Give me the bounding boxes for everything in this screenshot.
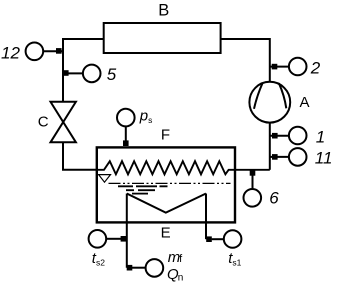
svg-text:1: 1 [316, 127, 325, 146]
evaporator F box [97, 147, 235, 222]
wire compressor down to evaporator outlet corner [269, 122, 271, 169]
node m_f [127, 265, 133, 271]
node t_s1 [206, 236, 212, 242]
separator trough E (V shape) [127, 194, 206, 213]
svg-text:B: B [158, 2, 169, 20]
node 11 [272, 154, 278, 160]
heating coil in evaporator [97, 161, 270, 174]
wire stub to sensor 2 [270, 66, 289, 68]
pipe E left leg [126, 194, 128, 268]
wire stub to sensor 1 [270, 135, 289, 137]
svg-text:11: 11 [315, 148, 333, 167]
sensor circle 5 [83, 65, 101, 83]
svg-text:2: 2 [310, 59, 321, 78]
sensor circle 12 [26, 43, 44, 61]
water surface dashes row 1 [118, 185, 168, 187]
level indicator nabla [99, 175, 111, 183]
wire stub to sensor 6 [252, 172, 254, 188]
compressor blade right [279, 83, 286, 108]
wire stub to sensor t_s1 [212, 238, 224, 240]
wire stub to sensor t_s2 [107, 238, 121, 240]
svg-text:F: F [161, 127, 170, 144]
wire top-right horizontal and down to compressor [221, 39, 270, 82]
compressor A [249, 82, 290, 123]
sensor circle 1 [289, 127, 307, 145]
compressor blade left [254, 83, 263, 109]
water surface dashes row 3 [132, 193, 148, 195]
sensor circle t_s2 [89, 230, 107, 248]
pipe E right leg [205, 194, 207, 240]
pressure sensor stub [125, 127, 127, 146]
sensor circle 2 [289, 58, 307, 76]
svg-text:C: C [38, 114, 49, 131]
svg-text:E: E [161, 225, 171, 242]
sensor circle 6 [244, 189, 262, 207]
water surface dashes row 2 [126, 189, 155, 191]
wire stub to sensor 12 [44, 50, 62, 52]
svg-text:A: A [300, 94, 310, 111]
wire valve to evaporator inlet [63, 142, 97, 170]
liquid level centre line [109, 182, 231, 184]
svg-text:12: 12 [1, 44, 20, 63]
wire top-left horizontal from node to condenser B [63, 39, 104, 102]
wire stub to sensor m_f [132, 267, 145, 269]
node 1 [272, 133, 278, 139]
wire stub to sensor 5 [63, 72, 82, 74]
node 2 [272, 64, 278, 70]
sensor circle p_s [117, 109, 135, 127]
svg-text:6: 6 [269, 188, 279, 207]
sensor circle 11 [289, 148, 307, 166]
expansion valve C [51, 102, 76, 143]
node 5 [63, 70, 69, 76]
node 12 [56, 48, 62, 54]
sensor circle m_f [146, 259, 164, 277]
wire stub to sensor 11 [270, 156, 289, 158]
condenser B [104, 23, 221, 53]
node t_s2 [121, 236, 127, 242]
svg-text:5: 5 [107, 65, 117, 84]
node p_s [123, 140, 129, 146]
node 6 [250, 170, 256, 176]
sensor circle t_s1 [224, 230, 242, 248]
